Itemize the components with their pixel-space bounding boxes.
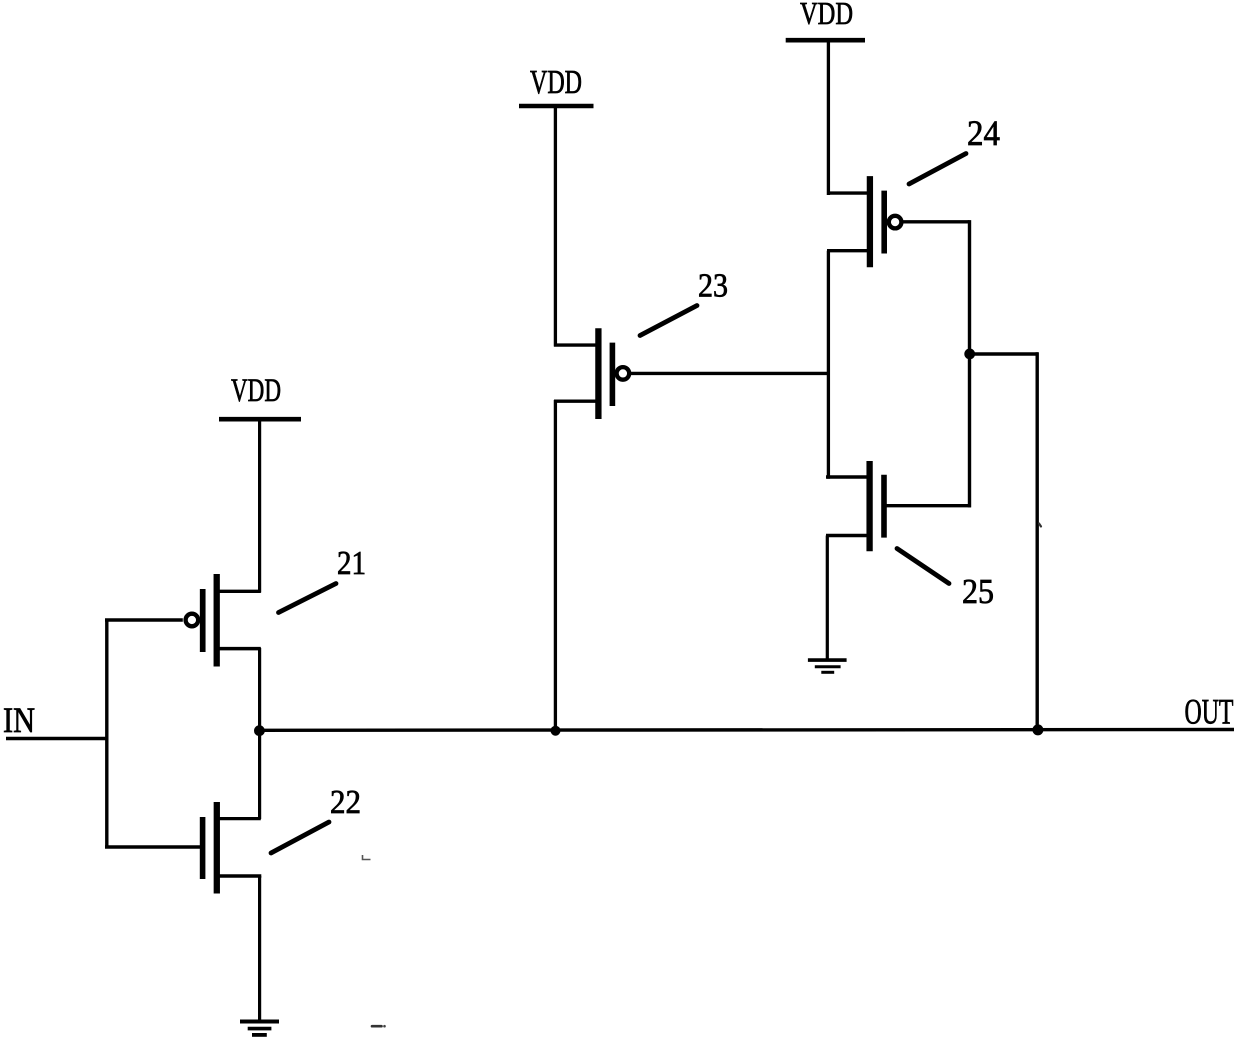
label 24	[967, 113, 1000, 153]
svg-text:22: 22	[330, 784, 361, 821]
transistor 23 (PMOS, mirrored)	[554, 328, 629, 419]
svg-text:24: 24	[967, 113, 1000, 153]
svg-text:IN: IN	[3, 700, 35, 740]
svg-text:VDD: VDD	[800, 0, 853, 31]
label 21 leader line	[279, 584, 337, 613]
artifact dash bottom center	[372, 1025, 386, 1028]
wire: VDD rail down to 23 source	[554, 106, 557, 347]
wire: PMOS 21 drain down to output node	[258, 648, 261, 819]
wire: gate of 22 horizontal	[105, 845, 201, 848]
svg-text:23: 23	[698, 268, 728, 305]
label 22 leader line	[271, 822, 329, 853]
label 22	[330, 784, 361, 821]
node: inverter output junction dot	[254, 725, 265, 736]
wire: feedback node vertical (gates of 24/25)	[968, 220, 971, 507]
VDD label (right)	[800, 0, 853, 31]
IN label	[3, 700, 35, 740]
wire: main output net horizontal	[260, 728, 1234, 732]
artifact mark near 22	[363, 855, 371, 860]
VDD label (middle)	[530, 64, 582, 101]
node: junction dot output net (right)	[1032, 724, 1043, 735]
node: feedback junction dot	[964, 349, 975, 360]
svg-text:VDD: VDD	[231, 373, 281, 409]
label 24 leader line	[909, 154, 966, 185]
wire: gate of 23 to drain column of 24	[631, 372, 830, 375]
VDD rail bar (right)	[786, 38, 865, 43]
wire: gate of 21 horizontal	[105, 618, 183, 621]
wire: gate of 25 to feedback node	[885, 504, 971, 507]
wire: IN lead	[6, 737, 107, 740]
wire: 25 source down to ground	[826, 536, 829, 659]
wire: gate of 24 to feedback node	[903, 220, 970, 223]
label 23	[698, 268, 728, 305]
transistor 21 (PMOS)	[186, 574, 261, 667]
label 25	[962, 572, 994, 611]
wire: NMOS 22 source down to ground	[258, 876, 261, 1022]
label 23 leader line	[640, 306, 697, 336]
svg-text:25: 25	[962, 572, 994, 611]
wire: VDD rail down to PMOS 21 source	[258, 419, 261, 593]
svg-text:21: 21	[337, 545, 366, 582]
wire: 23 drain down to output net	[554, 400, 557, 730]
transistor 22 (NMOS)	[203, 802, 262, 894]
OUT label	[1185, 692, 1234, 732]
node: junction dot at output net (middle)	[551, 726, 561, 736]
VDD rail bar (left)	[219, 417, 301, 422]
svg-text:OUT: OUT	[1185, 692, 1234, 732]
transistor 25 (NMOS, mirrored)	[826, 461, 884, 551]
transistor 24 (PMOS, mirrored)	[827, 176, 901, 267]
label 25 leader line	[897, 549, 949, 584]
ground symbol (left)	[240, 1022, 279, 1035]
wire: OUT column down to output net	[1035, 352, 1038, 730]
svg-text:VDD: VDD	[530, 64, 582, 101]
wire: gate bus vertical (left)	[105, 619, 108, 849]
wire: feedback node to OUT column	[970, 352, 1039, 355]
wire: VDD rail down to 24 source	[827, 40, 830, 195]
wire: 24 drain down to 25 drain	[827, 251, 830, 479]
VDD label (left)	[231, 373, 281, 409]
artifact tick on OUT column	[1039, 524, 1041, 527]
ground symbol (right)	[808, 660, 847, 672]
VDD rail bar (middle)	[519, 104, 594, 109]
label 21	[337, 545, 366, 582]
